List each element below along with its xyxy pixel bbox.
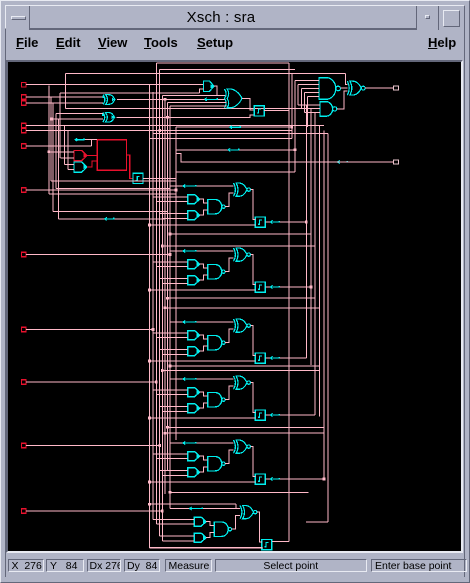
wire vertical bundle bbox=[297, 84, 299, 104]
wire S4.X->FF bbox=[251, 447, 256, 477]
maximize button bbox=[438, 6, 465, 30]
wire S0.A1 inputs bbox=[153, 196, 188, 198]
flip-flop S5.FF bbox=[262, 540, 272, 550]
wire junction bbox=[294, 148, 297, 151]
wire S2.A2->N bbox=[200, 346, 208, 351]
subckt box (selected) B1 bbox=[97, 140, 126, 171]
wire long net bbox=[165, 307, 320, 309]
flip-flop S1.FF bbox=[255, 282, 265, 292]
wire junction bbox=[166, 297, 169, 300]
wire S1.A1 inputs bbox=[153, 261, 188, 263]
and gate S3.A1 bbox=[188, 388, 200, 397]
wire S5.A2->N bbox=[206, 533, 214, 538]
status bar bbox=[6, 553, 464, 577]
wire vertical bbox=[55, 114, 57, 189]
wire S3.A1->N bbox=[200, 392, 208, 396]
wire vertical bundle bbox=[175, 127, 177, 440]
xnor gate S0.X (top) bbox=[234, 183, 236, 196]
net direction arrow bbox=[75, 139, 84, 141]
wire B1 out down to FF-red (selected) bbox=[127, 155, 134, 179]
wire junction bbox=[310, 286, 313, 289]
wire vertical bbox=[65, 74, 67, 109]
wire S3.A2->N bbox=[200, 403, 208, 408]
wire S2.X->FF bbox=[251, 326, 256, 356]
wire junction bbox=[169, 233, 172, 236]
and gate S3.A2 bbox=[188, 404, 200, 413]
wire long net bbox=[170, 491, 308, 493]
wire bottom of right bundle bbox=[306, 521, 328, 523]
net direction arrow bbox=[183, 321, 196, 323]
wire A1 out bbox=[214, 86, 226, 95]
wire S1.A2->N bbox=[200, 275, 208, 280]
output pin o0 bbox=[394, 86, 399, 90]
wire vertical bundle bbox=[318, 125, 320, 416]
and gate S5.A2 bbox=[194, 533, 206, 542]
xnor gate S2.X (top) bbox=[234, 319, 236, 332]
flip-flop S2.FF bbox=[255, 353, 265, 363]
nand gate S3.N bbox=[208, 393, 222, 407]
wire S4.A1->N bbox=[200, 456, 208, 460]
wire junction bbox=[148, 224, 151, 227]
wire horizontal bus bbox=[162, 95, 217, 97]
wire long net bbox=[149, 503, 236, 505]
xnor gate S5.X (top) bbox=[240, 506, 242, 519]
wire junction bbox=[164, 98, 167, 101]
net direction arrow bbox=[205, 98, 218, 100]
wire S4.FF ck input bbox=[149, 481, 255, 483]
minimize button bbox=[416, 6, 438, 30]
wire vertical bundle bbox=[294, 80, 296, 172]
wire S2.A1 inputs bbox=[153, 332, 188, 334]
net direction arrow bbox=[270, 286, 279, 288]
menu bar bbox=[6, 30, 464, 57]
and gate S4.A2 bbox=[188, 468, 200, 477]
wire S0.FF out bbox=[265, 221, 270, 223]
input pin i8 bbox=[22, 327, 26, 331]
nand gate S0.N bbox=[208, 200, 222, 214]
wire N1 out bbox=[340, 87, 347, 89]
wire S2.A2 inputs bbox=[160, 348, 188, 350]
wire vertical bundle bbox=[300, 89, 302, 109]
wire long net bbox=[170, 365, 319, 367]
net direction arrow bbox=[228, 149, 239, 151]
xnor gate S4.X (top) bbox=[234, 440, 236, 453]
net direction arrow bbox=[183, 378, 196, 380]
input pin i4 bbox=[22, 128, 26, 132]
wire S1.X->FF bbox=[251, 255, 256, 285]
wire vertical bundle bbox=[323, 131, 325, 480]
net direction arrow bbox=[105, 218, 114, 220]
wire X1 out into O4 bbox=[117, 98, 226, 100]
wire junction bbox=[50, 118, 53, 121]
input pin i6 bbox=[22, 188, 26, 192]
wire junction bbox=[148, 289, 151, 292]
wire S2.N->X bbox=[225, 329, 233, 343]
wire junction bbox=[169, 491, 172, 494]
wire vertical bbox=[59, 93, 61, 158]
wire feedback vertical (FF0 to S5) bbox=[288, 63, 290, 542]
wire S5 top input bend bbox=[236, 504, 240, 508]
wire junction bbox=[169, 365, 172, 368]
input pin i11 bbox=[22, 509, 26, 513]
wire FF0 out feedback (down to S5) bbox=[264, 109, 289, 111]
input pin i5 bbox=[22, 144, 26, 148]
wire horizontal bus bbox=[153, 133, 328, 135]
wire junction bbox=[175, 189, 178, 192]
wire junction bbox=[323, 478, 326, 481]
wire net-arrow into S4.X bbox=[170, 442, 234, 444]
wire S3.FF ck input bbox=[149, 417, 255, 419]
wire junction bbox=[155, 381, 158, 384]
wire to output pin o0 bbox=[365, 87, 394, 89]
wire horizontal bus bbox=[66, 73, 346, 75]
wire G2 inputs bbox=[65, 163, 74, 165]
xor gate X1 bbox=[103, 95, 105, 105]
wire S5.FF out to feedback vertical bbox=[272, 541, 289, 543]
wire vertical bundle bbox=[327, 134, 329, 522]
wire S1.A1->N bbox=[200, 264, 208, 268]
wire vertical bundle bbox=[306, 97, 308, 128]
net direction arrow bbox=[190, 508, 203, 510]
wire net arrow above B1 bbox=[75, 139, 97, 141]
wire G1 out to B1 (selected) bbox=[87, 155, 97, 157]
wire G2 out to B1 bbox=[87, 161, 97, 167]
wire FF-red out bbox=[143, 178, 176, 180]
wire bottom clock rail bbox=[149, 547, 263, 549]
net direction arrow bbox=[270, 357, 279, 359]
wire S0.FF out to bundle bbox=[280, 221, 307, 223]
wire N1 inputs bbox=[295, 79, 319, 81]
wire vertical bundle bbox=[291, 74, 293, 139]
wire S2.FF out bbox=[265, 357, 270, 359]
wire S4.N->X bbox=[225, 450, 233, 464]
wire S5.A1 inputs bbox=[153, 519, 194, 521]
wire vertical bundle bbox=[314, 112, 316, 415]
title bar bbox=[5, 5, 465, 29]
net direction arrow bbox=[183, 442, 196, 444]
input pin i10 bbox=[22, 443, 26, 447]
and gate S2.A1 bbox=[188, 331, 200, 340]
wire O4 out to FF0 bbox=[242, 98, 254, 110]
wire long net bbox=[162, 245, 314, 247]
wire X2 out to FF0 d-input bbox=[116, 115, 254, 118]
wire vertical bbox=[58, 119, 60, 219]
wire S0.A1->N bbox=[200, 199, 208, 203]
window menu button bbox=[6, 6, 30, 30]
wire junction bbox=[148, 417, 151, 420]
input pin i9 bbox=[22, 380, 26, 384]
nand gate S4.N bbox=[208, 457, 222, 471]
input pin i2 bbox=[22, 101, 26, 105]
wire net-arrow into S3.X bbox=[170, 378, 234, 380]
wire junction bbox=[148, 360, 151, 363]
and gate (selected) G1 bbox=[74, 150, 87, 160]
wire junction bbox=[161, 245, 164, 248]
wire S5.FF ck input bbox=[149, 547, 261, 549]
wire long net bbox=[162, 370, 319, 372]
wire junction bbox=[158, 129, 161, 132]
wire S1.FF ck input bbox=[149, 289, 255, 291]
wire vertical bbox=[67, 131, 69, 170]
flip-flop S4.FF bbox=[255, 474, 265, 484]
wire vertical bundle bbox=[166, 103, 168, 470]
wire vertical bundle bbox=[161, 96, 163, 541]
wire vertical bundle bbox=[310, 109, 312, 366]
wire horizontal bus bbox=[160, 69, 295, 71]
xor gate X2 bbox=[103, 113, 105, 123]
wire vertical bundle bbox=[164, 99, 166, 494]
wire S1.N->X bbox=[225, 258, 233, 272]
net direction arrow bbox=[230, 126, 241, 128]
wire S3.X->FF bbox=[251, 383, 256, 413]
wire A1 inputs bbox=[60, 92, 199, 94]
wire S2.A1->N bbox=[200, 335, 208, 339]
wire S4.A2 inputs bbox=[160, 469, 188, 471]
wire junction bbox=[148, 481, 151, 484]
wire S4.FF out bbox=[265, 478, 270, 480]
wire horizontal bus bbox=[156, 62, 289, 64]
wire vertical bundle bbox=[159, 70, 161, 536]
wire long net bbox=[170, 233, 311, 235]
net direction arrow bbox=[270, 478, 279, 480]
wire vertical bbox=[64, 125, 66, 164]
wire S0.X->FF bbox=[251, 190, 256, 220]
nand gate S5.N bbox=[214, 522, 228, 536]
wire vertical bundle bbox=[305, 105, 307, 358]
wire vertical bundle bbox=[169, 106, 171, 508]
net direction arrow bbox=[270, 221, 279, 223]
wire S0.N->X bbox=[225, 193, 233, 207]
wire S3.FF out to bundle bbox=[280, 414, 315, 416]
wire long net bbox=[167, 297, 314, 299]
wire junction bbox=[164, 432, 167, 435]
wire vertical bundle bbox=[303, 93, 305, 113]
wire junction bbox=[161, 369, 164, 372]
wire O4 inputs bbox=[167, 102, 226, 104]
wire junction bbox=[166, 116, 169, 119]
wire S4.A1 inputs bbox=[153, 453, 188, 455]
wire S1.FF out bbox=[265, 286, 270, 288]
and gate S2.A2 bbox=[188, 347, 200, 356]
net direction arrow bbox=[338, 161, 348, 163]
wire vertical bbox=[50, 97, 52, 181]
wire junction bbox=[305, 221, 308, 224]
wire S4.A2->N bbox=[200, 467, 208, 472]
flip-flop S0.FF bbox=[255, 217, 265, 227]
input pin i0 bbox=[22, 83, 26, 87]
wire S4.FF out to bundle bbox=[280, 478, 324, 480]
wire S0.A2 inputs bbox=[160, 212, 188, 214]
wire long net bbox=[165, 432, 324, 434]
and gate S4.A1 bbox=[188, 452, 200, 461]
wire junction bbox=[158, 444, 161, 447]
wire long net bbox=[167, 426, 324, 428]
net direction arrow bbox=[183, 250, 196, 252]
flip-flop FF-red bbox=[133, 173, 143, 183]
and gate S1.A2 bbox=[188, 276, 200, 285]
wire junction bbox=[169, 253, 172, 256]
wire horizontal bus bbox=[66, 108, 315, 110]
wire S1.FF out to bundle bbox=[280, 286, 311, 288]
wire vertical bundle bbox=[148, 85, 150, 548]
xnor gate S3.X (top) bbox=[234, 376, 236, 389]
input pin i1 bbox=[22, 95, 26, 99]
wire X2 inputs bbox=[56, 113, 103, 115]
wire vertical bbox=[52, 103, 54, 212]
wire junction bbox=[152, 328, 155, 331]
wire S5.A2 inputs bbox=[160, 535, 195, 537]
nand gate S2.N bbox=[208, 336, 222, 350]
wire vertical bundle bbox=[152, 92, 154, 520]
wire junction bbox=[164, 306, 167, 309]
nand gate S1.N bbox=[208, 265, 222, 279]
wire S3.A2 inputs bbox=[160, 405, 188, 407]
wire junction bbox=[166, 426, 169, 429]
wire net-arrow into S1.X bbox=[170, 250, 234, 252]
net direction arrow bbox=[183, 185, 196, 187]
wire junction bbox=[148, 503, 151, 506]
input pin i3 bbox=[22, 123, 26, 127]
wire from top bus down to final NOR bbox=[345, 74, 347, 85]
wire S2.FF out to bundle bbox=[280, 357, 307, 359]
input pin i7 bbox=[22, 252, 26, 256]
and gate S0.A2 bbox=[188, 211, 200, 220]
wire S1.A2 inputs bbox=[160, 277, 188, 279]
output pin o1 bbox=[394, 160, 399, 164]
output net o1 from bundle bbox=[176, 153, 394, 162]
wire S5.A1->N bbox=[206, 522, 214, 526]
wire S0.FF ck input bbox=[149, 224, 255, 226]
wire S3.A1 inputs bbox=[153, 389, 188, 391]
flip-flop S3.FF bbox=[255, 410, 265, 420]
wire net-arrow into S0.X bbox=[170, 185, 234, 187]
and gate G2 bbox=[74, 162, 87, 172]
wire S5.X->FF bbox=[257, 512, 262, 542]
wire vertical bundle bbox=[155, 63, 157, 524]
wire N2 inputs bbox=[298, 104, 320, 106]
wire S3.N->X bbox=[225, 386, 233, 400]
wire junction bbox=[290, 126, 293, 129]
and gate S1.A1 bbox=[188, 260, 200, 269]
wire junction bbox=[161, 510, 164, 513]
wire vertical bbox=[48, 85, 50, 194]
and gate S5.A1 bbox=[194, 517, 206, 526]
wire junction bbox=[47, 150, 50, 153]
wire S3.FF out bbox=[265, 414, 270, 416]
wire net-arrow into S5.X bbox=[170, 508, 240, 510]
net direction arrow bbox=[270, 414, 279, 416]
wire S0.A2->N bbox=[200, 210, 208, 215]
wire S2.FF ck input bbox=[149, 360, 255, 362]
wire N2 out to NOR bbox=[337, 91, 348, 109]
xnor gate S1.X (top) bbox=[234, 248, 236, 261]
wire G1 inputs bbox=[49, 151, 74, 153]
wire net-arrow into S2.X bbox=[170, 321, 234, 323]
and gate S0.A1 bbox=[188, 195, 200, 204]
wire S5.N->X bbox=[232, 516, 240, 530]
